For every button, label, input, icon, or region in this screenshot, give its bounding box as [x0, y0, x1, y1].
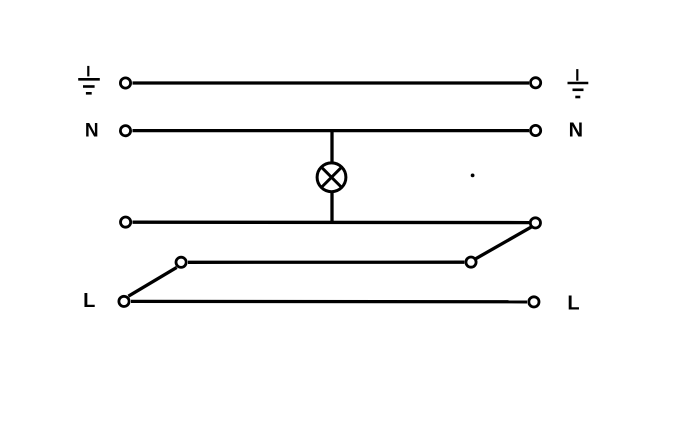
lamp E1: [317, 163, 346, 192]
svg-text:L: L: [83, 290, 95, 312]
terminal right, neutral wire: [531, 125, 541, 135]
ground (earth) symbol left: [78, 66, 100, 93]
wire, neutral conductor: [133, 129, 530, 132]
wire, line conductor: [131, 300, 527, 304]
switch S2 pole terminal: [466, 257, 476, 267]
terminal left, line wire: [119, 296, 129, 306]
terminal left, switched line wire: [121, 217, 131, 227]
ground (earth) symbol right: [568, 69, 589, 97]
wire, lamp branch upper: [330, 131, 333, 163]
terminal right, line wire: [529, 297, 539, 307]
svg-text:L: L: [567, 293, 579, 315]
terminal left, earth wire: [120, 78, 130, 88]
wire, lamp branch lower: [330, 192, 333, 224]
wire, earth conductor: [133, 81, 530, 84]
terminal left, neutral wire: [120, 126, 130, 136]
terminal right, earth wire: [531, 78, 541, 88]
switch S1 pole terminal: [176, 257, 186, 267]
wire, switched line conductor: [133, 221, 530, 225]
wire, traveller conductor: [188, 261, 464, 264]
stray dot mark: [471, 174, 475, 178]
switch S2 blade: [475, 227, 531, 259]
svg-text:N: N: [569, 120, 583, 142]
terminal right, switched line wire: [530, 218, 540, 228]
switch S1 blade: [128, 267, 176, 296]
svg-text:N: N: [85, 121, 99, 142]
